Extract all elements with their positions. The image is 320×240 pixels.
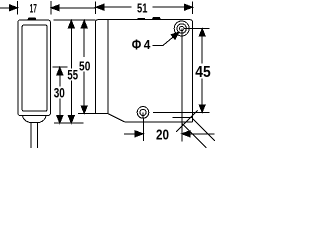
- svg-text:Φ: Φ: [132, 37, 142, 53]
- bracket hatch diagonal reverse: [176, 111, 198, 133]
- side view cable: [31, 122, 37, 148]
- side view cable gland: [22, 116, 46, 123]
- dimension 51 right arrow: [185, 4, 193, 10]
- dimension 30 line: [59, 75, 61, 118]
- dimension 50 bottom arrow: [81, 106, 87, 114]
- svg-text:17: 17: [30, 1, 37, 15]
- top mounting hole inner swirl: [180, 26, 184, 30]
- dimension 17 right arrow: [51, 5, 59, 11]
- front view body outline: [95, 20, 192, 122]
- extension line below bottom hole: [142, 119, 144, 141]
- front view top bump large: [152, 17, 160, 19]
- svg-text:4: 4: [144, 37, 151, 52]
- phi4 leader arrowhead: [171, 32, 179, 39]
- dimension 51 line: [96, 1, 193, 13]
- dimension 20 line: [124, 133, 215, 135]
- bottom mounting hole inner circle: [140, 109, 146, 115]
- bracket hatch diagonal right: [193, 118, 216, 140]
- dimension 51 left arrow: [96, 4, 104, 10]
- dimension 17 line: [0, 1, 95, 15]
- bracket vertical line through top hole center: [181, 29, 183, 142]
- svg-text:30: 30: [54, 85, 65, 101]
- top mounting hole outer circle: [174, 21, 189, 36]
- top hole centerline: [184, 28, 210, 30]
- dimension 45 top arrow: [199, 29, 205, 36]
- front view top bump small: [138, 18, 145, 19]
- side view inner face: [22, 25, 47, 111]
- front view inner vertical line: [107, 20, 109, 114]
- bracket horizontal line: [173, 117, 193, 119]
- svg-text:55: 55: [67, 67, 78, 82]
- svg-text:20: 20: [156, 127, 169, 143]
- dimension 17 left arrow: [10, 5, 18, 11]
- dimension 50 line: [83, 26, 85, 107]
- dimension 45 line: [201, 36, 203, 106]
- top extension line between views: [53, 19, 95, 21]
- front view bottom-left step: [95, 113, 108, 115]
- front view bottom-left chamfer: [108, 114, 125, 122]
- dimension 50 top arrow: [81, 20, 87, 28]
- dimension 55 bottom arrow: [68, 116, 74, 124]
- extension line at 55/30 bottom: [54, 122, 84, 124]
- side view top tab: [28, 17, 37, 20]
- dimension 55 top arrow: [68, 20, 74, 28]
- dimension 20 right arrow: [182, 131, 190, 137]
- bottom mounting hole outer circle: [137, 107, 149, 119]
- dimension 30 top arrow: [57, 67, 63, 75]
- bracket hatch diagonal left: [182, 123, 207, 148]
- side view outer body: [18, 20, 51, 116]
- bottom mounting hole swirl tail: [142, 112, 144, 118]
- extension tick for 30 top: [53, 66, 68, 68]
- phi4 leader line: [153, 37, 174, 45]
- dimension 20 left arrow: [135, 131, 143, 137]
- dimension 55 line: [70, 26, 72, 117]
- svg-text:50: 50: [79, 59, 90, 74]
- svg-text:51: 51: [137, 1, 147, 15]
- top mounting hole middle circle: [177, 24, 186, 33]
- extension line at 50 bottom: [78, 113, 95, 115]
- bottom hole centerline: [153, 111, 209, 113]
- dimension 45 bottom arrow: [199, 105, 205, 113]
- svg-text:45: 45: [195, 64, 211, 81]
- front view bottom edge: [124, 121, 192, 123]
- dimension 30 bottom arrow: [57, 116, 63, 124]
